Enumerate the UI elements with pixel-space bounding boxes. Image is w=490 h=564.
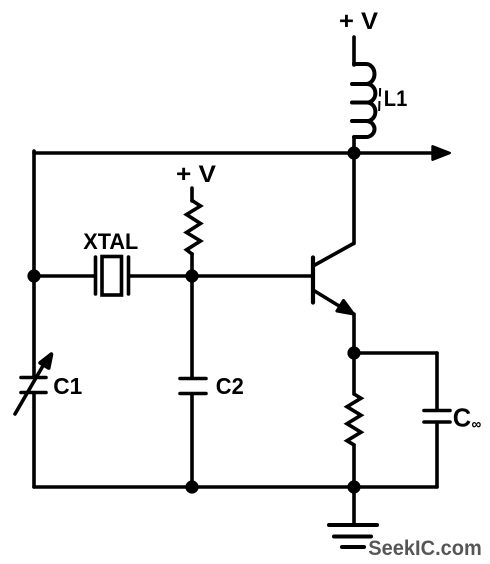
- capacitor C2 top plate: [180, 377, 206, 381]
- svg-text:+ V: + V: [339, 8, 379, 35]
- crystal XTAL right plate: [127, 257, 131, 294]
- wire bottom rail: [34, 485, 437, 489]
- transistor Q1 emitter lead: [313, 290, 344, 309]
- wire top rail: [34, 151, 431, 155]
- wire emitter vertical: [352, 314, 356, 353]
- wire base: [192, 274, 311, 278]
- capacitor C1 bottom plate: [21, 391, 46, 395]
- svg-text:C2: C2: [216, 373, 244, 399]
- wire XTAL to node: [129, 274, 192, 278]
- crystal XTAL left plate: [94, 257, 98, 294]
- wire emitter to C-inf branch: [354, 351, 437, 355]
- wire collector vertical: [352, 153, 356, 244]
- resistor (emitter): [347, 353, 361, 487]
- svg-text:∞: ∞: [472, 416, 482, 433]
- crystal XTAL body: [102, 257, 122, 296]
- capacitor C2 bottom plate: [180, 392, 206, 396]
- svg-text:XTAL: XTAL: [83, 229, 138, 254]
- svg-text:C1: C1: [53, 373, 82, 399]
- wire C-inf upper: [435, 353, 439, 409]
- ground bar 1: [329, 523, 377, 527]
- resistor (base bias): [187, 201, 201, 255]
- node base junction: [185, 269, 198, 282]
- node XTAL left: [27, 269, 40, 282]
- svg-text:C: C: [453, 404, 471, 432]
- svg-text:SeekIC.com: SeekIC.com: [368, 537, 482, 560]
- wire L1 to top rail: [352, 137, 356, 153]
- ground bar 2: [334, 535, 371, 539]
- wire supply to L1: [352, 37, 356, 65]
- svg-text:+ V: + V: [176, 161, 216, 188]
- node emitter junction: [347, 346, 360, 359]
- output arrowhead: [433, 146, 450, 159]
- transistor Q1 base bar: [311, 258, 315, 303]
- wire node to XTAL: [34, 274, 95, 278]
- wire left rail lower: [32, 394, 36, 487]
- node ground junction: [347, 480, 360, 493]
- label L1: [378, 86, 407, 111]
- svg-text:L1: L1: [384, 86, 408, 111]
- wire left rail upper: [32, 151, 36, 376]
- node C2 bottom: [185, 480, 198, 493]
- wire C2 lower: [190, 395, 194, 487]
- capacitor C-inf top plate: [424, 409, 450, 413]
- transistor Q1 collector lead: [313, 244, 354, 267]
- wire C-inf lower: [435, 423, 439, 487]
- capacitor C1 arrowhead: [40, 354, 51, 368]
- ground stem: [352, 487, 356, 524]
- node top rail / collector: [347, 146, 360, 159]
- transistor Q1 emitter arrow: [337, 300, 354, 314]
- capacitor C1 top plate: [21, 376, 46, 380]
- label C-inf: [453, 404, 482, 433]
- wire C2 upper: [190, 276, 194, 377]
- ground bar 3: [342, 545, 364, 549]
- capacitor C-inf bottom plate: [424, 420, 450, 424]
- inductor L1: [352, 64, 375, 137]
- wire bias supply lead: [190, 188, 194, 201]
- capacitor C1 arrow shaft: [15, 364, 44, 414]
- wire resistor to node: [190, 254, 194, 276]
